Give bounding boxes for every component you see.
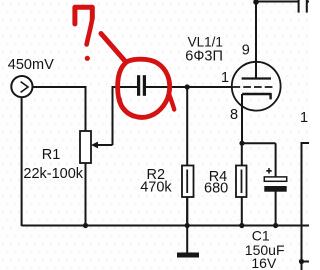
svg-text:VL1/1: VL1/1 [188, 34, 223, 49]
svg-text:9: 9 [242, 42, 250, 58]
svg-text:450mV: 450mV [8, 57, 54, 73]
svg-text:6Ф3П: 6Ф3П [185, 48, 223, 64]
svg-text:470k: 470k [140, 179, 172, 195]
svg-text:1: 1 [221, 70, 229, 86]
svg-text:1: 1 [300, 110, 308, 126]
svg-text:16V: 16V [251, 255, 277, 270]
svg-text:22k-100k: 22k-100k [23, 166, 83, 182]
svg-text:R1: R1 [42, 147, 61, 163]
svg-text:680: 680 [204, 181, 228, 197]
svg-text:8: 8 [230, 107, 238, 123]
